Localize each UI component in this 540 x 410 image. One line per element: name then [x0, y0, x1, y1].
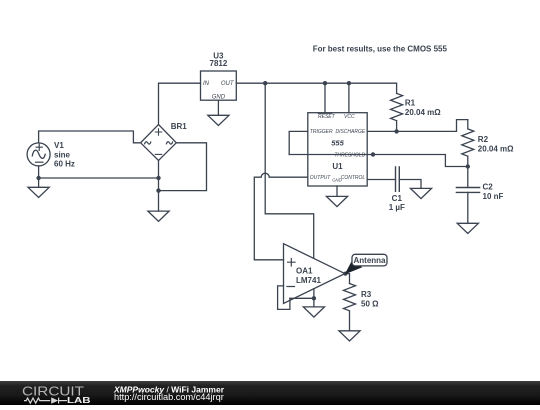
wire U3 GND	[217, 100, 219, 115]
svg-text:CONTROL: CONTROL	[341, 175, 366, 181]
wire V1 top to BR1 left	[39, 131, 141, 143]
svg-text:R3: R3	[361, 290, 372, 299]
wire OUTPUT to op-amp plus with hop	[254, 173, 307, 260]
capacitor C2	[456, 188, 479, 193]
ground under op-amp	[303, 307, 324, 317]
wire 12V rail to op-amp V+	[265, 83, 314, 258]
V1 label	[54, 141, 75, 168]
ground under U1	[326, 196, 347, 206]
svg-text:sine: sine	[54, 151, 71, 160]
wire C2 to ground	[467, 192, 469, 223]
U3 pin names	[203, 81, 235, 100]
svg-text:50 Ω: 50 Ω	[361, 300, 379, 309]
node BR1 bottom / V1 return	[156, 176, 160, 180]
ground under U3	[208, 115, 229, 125]
wire V1 bottom vertical	[38, 166, 40, 187]
node THRESHOLD pin	[371, 152, 375, 156]
ground under C2	[457, 223, 478, 233]
BR1 label	[171, 122, 188, 131]
svg-text:BR1: BR1	[171, 122, 188, 131]
svg-text:R2: R2	[478, 135, 489, 144]
timer U1 555 box	[308, 113, 367, 186]
svg-text:THRESHOLD: THRESHOLD	[334, 152, 365, 158]
svg-text:IN: IN	[203, 81, 210, 87]
svg-text:GND: GND	[332, 178, 342, 183]
RESET overline	[318, 113, 332, 115]
capacitor C1	[396, 167, 400, 191]
wire BR1 bottom to ground	[158, 161, 160, 212]
wire op-amp output to R3	[345, 274, 350, 284]
OA1 labels	[296, 266, 321, 284]
U1 pin names	[310, 114, 366, 182]
ground under BR1	[148, 211, 169, 221]
svg-text:V1: V1	[54, 141, 64, 150]
resistor R1	[391, 93, 403, 131]
ground right of C1	[410, 188, 431, 198]
wire C1 to ground	[399, 180, 421, 189]
BR1 tilde ac marks	[145, 142, 173, 144]
R2 labels	[478, 135, 514, 153]
node R2 bottom	[466, 164, 470, 168]
wire TRIGGER loop	[289, 131, 308, 154]
wire THRESHOLD net	[289, 155, 468, 167]
C1 labels	[389, 194, 405, 212]
svg-text:C1: C1	[392, 194, 403, 203]
wire U1 GND	[336, 186, 338, 196]
antenna flag text	[354, 256, 387, 265]
svg-text:VCC: VCC	[344, 114, 355, 120]
wire BR1 right loop	[159, 143, 207, 191]
svg-text:Antenna: Antenna	[354, 256, 387, 265]
wire feedback minus input	[278, 286, 290, 310]
svg-text:RESET: RESET	[318, 114, 336, 120]
node BR1 loop return	[156, 188, 160, 192]
U1 pin wires RESET VCC	[325, 83, 349, 113]
footer bar	[0, 381, 540, 405]
svg-text:DISCHARGE: DISCHARGE	[335, 129, 365, 135]
svg-text:LAB: LAB	[67, 395, 91, 405]
voltage source V1	[27, 143, 50, 166]
svg-text:LM741: LM741	[296, 276, 321, 285]
wire U3 OUT 12V rail	[236, 83, 396, 93]
svg-text:7812: 7812	[210, 59, 228, 68]
svg-text:555: 555	[331, 139, 344, 148]
resistor R2	[462, 120, 474, 188]
node op-amp output	[343, 272, 347, 276]
svg-text:1 µF: 1 µF	[389, 203, 405, 212]
ground under R3	[339, 331, 360, 341]
svg-text:20.04 mΩ: 20.04 mΩ	[478, 144, 514, 153]
wire BR1 top to U3 IN	[159, 83, 201, 124]
svg-text:R1: R1	[405, 99, 416, 108]
svg-text:20.04 mΩ: 20.04 mΩ	[405, 108, 441, 117]
svg-text:OUTPUT: OUTPUT	[310, 175, 332, 181]
ground under V1	[28, 187, 49, 197]
wire feedback to Vminus node	[290, 297, 314, 299]
svg-text:TRIGGER: TRIGGER	[310, 129, 333, 135]
node rail RESET	[323, 81, 327, 85]
U1 name labels	[331, 139, 344, 171]
bridge rectifier BR1	[141, 125, 177, 161]
node rail to op-amp	[263, 81, 267, 85]
svg-text:60 Hz: 60 Hz	[54, 160, 75, 169]
resistor R3	[344, 284, 356, 331]
svg-text:OA1: OA1	[296, 266, 313, 275]
op-amp OA1	[284, 244, 345, 304]
svg-text:U1: U1	[332, 162, 343, 171]
node rail VCC	[347, 81, 351, 85]
svg-text:C2: C2	[483, 182, 494, 191]
logo wire motif	[24, 398, 67, 404]
regulator U3 box	[201, 71, 237, 100]
logo diode arrow	[51, 397, 58, 403]
wire op-amp V- stub	[313, 289, 315, 307]
wire CONTROL to C1	[367, 179, 395, 181]
node V- feedback	[312, 296, 316, 300]
wire V1 to BR1 bottom node	[39, 177, 159, 179]
svg-text:http://circuitlab.com/c44jrqr: http://circuitlab.com/c44jrqr	[114, 392, 224, 402]
C2 labels	[483, 182, 504, 201]
svg-text:For best results, use the CMOS: For best results, use the CMOS 555	[313, 45, 448, 54]
node at V1 bottom	[36, 176, 40, 180]
antenna flag pointer	[345, 261, 363, 275]
R3 labels	[361, 290, 379, 309]
node R1 bottom	[394, 129, 398, 133]
antenna flag	[352, 254, 387, 266]
svg-text:OUT: OUT	[221, 81, 235, 87]
svg-text:10 nF: 10 nF	[483, 192, 504, 201]
note text	[313, 45, 448, 54]
U3 labels	[210, 51, 228, 68]
OA1 plus minus marks	[287, 259, 295, 287]
R1 labels	[405, 99, 441, 118]
wire DISCHARGE to R1/R2	[367, 120, 468, 132]
